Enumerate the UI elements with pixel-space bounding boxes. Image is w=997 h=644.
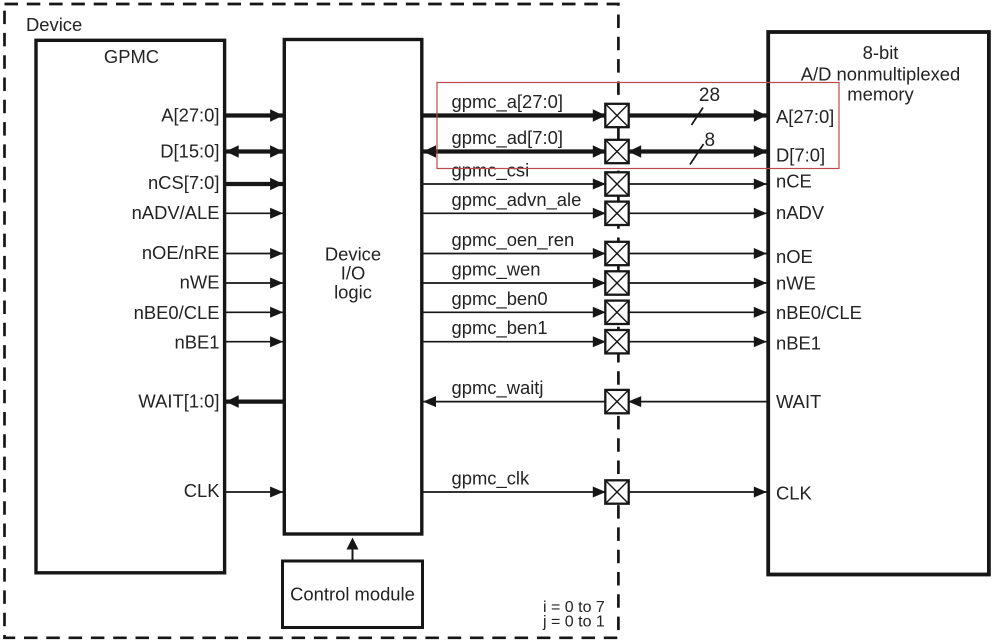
pad buffer gpmc_a[27:0] xyxy=(605,104,628,127)
svg-text:WAIT: WAIT xyxy=(776,391,821,412)
wire gpmc_ad[7:0] pad segment xyxy=(423,145,607,158)
svg-text:nADV: nADV xyxy=(776,202,825,223)
svg-text:nWE: nWE xyxy=(180,271,220,292)
pad buffer gpmc_clk xyxy=(605,480,628,503)
svg-text:WAIT[1:0]: WAIT[1:0] xyxy=(138,390,219,411)
label memory title xyxy=(801,42,960,105)
svg-text:nOE: nOE xyxy=(776,246,813,267)
svg-text:nWE: nWE xyxy=(776,273,816,294)
svg-text:gpmc_waitj: gpmc_waitj xyxy=(452,377,544,399)
svg-text:8-bit: 8-bit xyxy=(863,42,899,63)
wire gpmc_wen pad segment xyxy=(423,278,607,289)
svg-text:nBE1: nBE1 xyxy=(175,331,220,352)
svg-text:A/D nonmultiplexed: A/D nonmultiplexed xyxy=(801,64,960,85)
wire nBE1 memory segment xyxy=(628,336,768,347)
wire gpmc_ben0 left segment xyxy=(225,307,283,318)
wire gpmc_waitj pad segment xyxy=(423,396,607,407)
svg-text:D[7:0]: D[7:0] xyxy=(776,145,825,166)
svg-text:D[15:0]: D[15:0] xyxy=(160,141,219,162)
pad buffer gpmc_csi xyxy=(605,172,628,195)
wire nBE0/CLE memory segment xyxy=(628,307,768,318)
pad buffer gpmc_wen xyxy=(605,271,628,294)
svg-text:logic: logic xyxy=(334,282,372,303)
svg-text:A[27:0]: A[27:0] xyxy=(776,106,834,127)
svg-text:8: 8 xyxy=(705,130,716,151)
svg-text:nADV/ALE: nADV/ALE xyxy=(132,202,220,223)
block Device I/O logic U-IO xyxy=(284,40,422,535)
pad buffer gpmc_advn_ale xyxy=(605,202,628,225)
pad buffer gpmc_ben0 xyxy=(605,301,628,324)
bus width 28 slash xyxy=(692,108,704,126)
wire gpmc_advn_ale pad segment xyxy=(423,208,607,219)
svg-text:gpmc_ad[7:0]: gpmc_ad[7:0] xyxy=(452,127,563,149)
svg-text:gpmc_wen: gpmc_wen xyxy=(452,259,541,281)
wire gpmc_advn_ale left segment xyxy=(225,208,283,219)
svg-text:gpmc_a[27:0]: gpmc_a[27:0] xyxy=(452,91,563,113)
wire nOE memory segment xyxy=(628,248,768,259)
svg-text:GPMC: GPMC xyxy=(104,46,159,67)
svg-text:Device: Device xyxy=(325,244,381,265)
pad buffer gpmc_waitj xyxy=(605,390,628,413)
wire nWE memory segment xyxy=(628,278,768,289)
wire gpmc_oen_ren left segment xyxy=(225,248,283,259)
label Device I/O logic xyxy=(325,244,381,303)
svg-text:gpmc_oen_ren: gpmc_oen_ren xyxy=(452,229,575,251)
highlight rectangle (red) xyxy=(437,83,839,169)
svg-text:Control module: Control module xyxy=(290,584,415,605)
pad buffer gpmc_oen_ren xyxy=(605,242,628,265)
svg-text:gpmc_clk: gpmc_clk xyxy=(452,468,530,490)
wire CLK memory segment xyxy=(628,487,768,498)
svg-text:nBE0/CLE: nBE0/CLE xyxy=(776,302,862,323)
svg-text:nBE1: nBE1 xyxy=(776,333,821,354)
wire gpmc_oen_ren pad segment xyxy=(423,248,607,259)
wire gpmc_ben0 pad segment xyxy=(423,307,607,318)
wire gpmc_wen left segment xyxy=(225,278,283,289)
wire D[7:0] memory segment xyxy=(628,145,768,158)
block 8-bit A/D nonmultiplexed memory xyxy=(768,32,989,575)
wire nADV memory segment xyxy=(628,208,768,219)
svg-text:A[27:0]: A[27:0] xyxy=(161,105,219,126)
block GPMC xyxy=(36,40,225,573)
wire gpmc_clk left segment xyxy=(225,487,283,498)
wire gpmc_waitj left segment xyxy=(225,395,283,408)
wire gpmc_a[27:0] pad segment xyxy=(423,109,607,122)
wire nCE memory segment xyxy=(628,179,768,190)
block Control module xyxy=(283,561,423,628)
wire gpmc_ben1 left segment xyxy=(225,336,283,347)
wire A[27:0] memory segment xyxy=(628,109,768,122)
svg-text:28: 28 xyxy=(699,85,720,106)
svg-text:gpmc_csi: gpmc_csi xyxy=(452,160,530,182)
svg-text:gpmc_ben1: gpmc_ben1 xyxy=(452,317,548,339)
svg-text:gpmc_advn_ale: gpmc_advn_ale xyxy=(452,189,582,211)
svg-text:nBE0/CLE: nBE0/CLE xyxy=(134,302,220,323)
wire WAIT memory segment xyxy=(628,396,768,407)
wire gpmc_csi pad segment xyxy=(423,179,607,190)
pad buffer gpmc_ben1 xyxy=(605,330,628,353)
wire gpmc_csi left segment xyxy=(225,178,283,191)
svg-text:Device: Device xyxy=(26,14,82,35)
svg-text:gpmc_ben0: gpmc_ben0 xyxy=(452,288,548,310)
wire control module to I/O logic xyxy=(347,538,359,561)
svg-text:j = 0 to 1: j = 0 to 1 xyxy=(542,614,605,631)
svg-text:nCS[7:0]: nCS[7:0] xyxy=(148,172,220,193)
svg-text:nCE: nCE xyxy=(776,171,812,192)
bus width 8 slash xyxy=(690,144,704,165)
svg-text:I/O: I/O xyxy=(341,263,366,284)
svg-text:nOE/nRE: nOE/nRE xyxy=(142,242,220,263)
svg-text:CLK: CLK xyxy=(184,480,221,501)
wire gpmc_ad[7:0] left segment xyxy=(225,145,283,158)
svg-text:CLK: CLK xyxy=(776,483,813,504)
pad buffer gpmc_ad[7:0] xyxy=(605,140,628,163)
device boundary (dashed) xyxy=(5,4,619,638)
wire gpmc_clk pad segment xyxy=(423,487,607,498)
wire gpmc_ben1 pad segment xyxy=(423,336,607,347)
svg-text:memory: memory xyxy=(847,84,914,105)
wire gpmc_a[27:0] left segment xyxy=(225,109,283,122)
